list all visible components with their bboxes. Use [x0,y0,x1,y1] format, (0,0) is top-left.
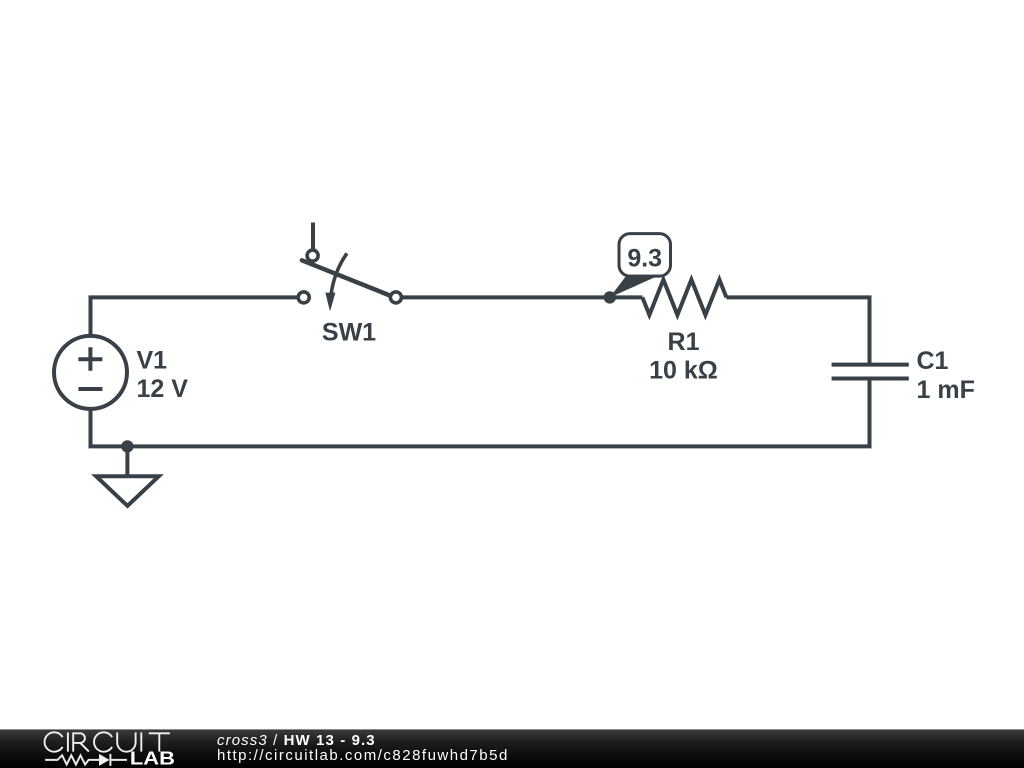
svg-text:1 mF: 1 mF [917,376,975,404]
logo diode [99,753,110,765]
switch SW1 terminals [307,250,318,261]
svg-text:V1: V1 [137,347,168,375]
capacitor C1 [832,365,909,379]
wire top-left segment [91,297,299,336]
switch SW1 arc [331,253,347,293]
resistor R1 [642,280,726,315]
svg-text:LAB: LAB [130,747,175,767]
logo zigzag (resistor) [45,755,99,764]
svg-text:C1: C1 [917,347,949,375]
switch arrow head [325,293,335,312]
svg-text:12 V: 12 V [137,375,189,403]
junction dot at resistor input [604,291,616,303]
svg-text:R1: R1 [668,328,700,356]
footer bar [0,729,1024,768]
svg-text:http://circuitlab.com/c828fuwh: http://circuitlab.com/c828fuwhd7b5d [217,747,509,764]
annotation box 9.3 [619,234,671,277]
svg-text:SW1: SW1 [322,319,376,347]
svg-text:9.3: 9.3 [627,245,662,273]
voltage source V1 [54,336,127,409]
annotation pointer wedge [610,275,661,298]
wire switch to resistor [401,295,642,299]
switch SW1 lever [302,260,389,295]
svg-text:10 kΩ: 10 kΩ [649,357,718,385]
switch SW1 top stub wire [311,223,315,251]
junction dot at ground [121,440,133,452]
ground stub wire [125,446,129,476]
wire capacitor to bottom, bottom wire, up to V1 [91,379,870,447]
logo CIRCUIT (hand-drawn thin geometric letters) [45,732,170,751]
wire resistor to top-right corner down to capacitor [726,297,869,364]
ground [96,476,159,506]
